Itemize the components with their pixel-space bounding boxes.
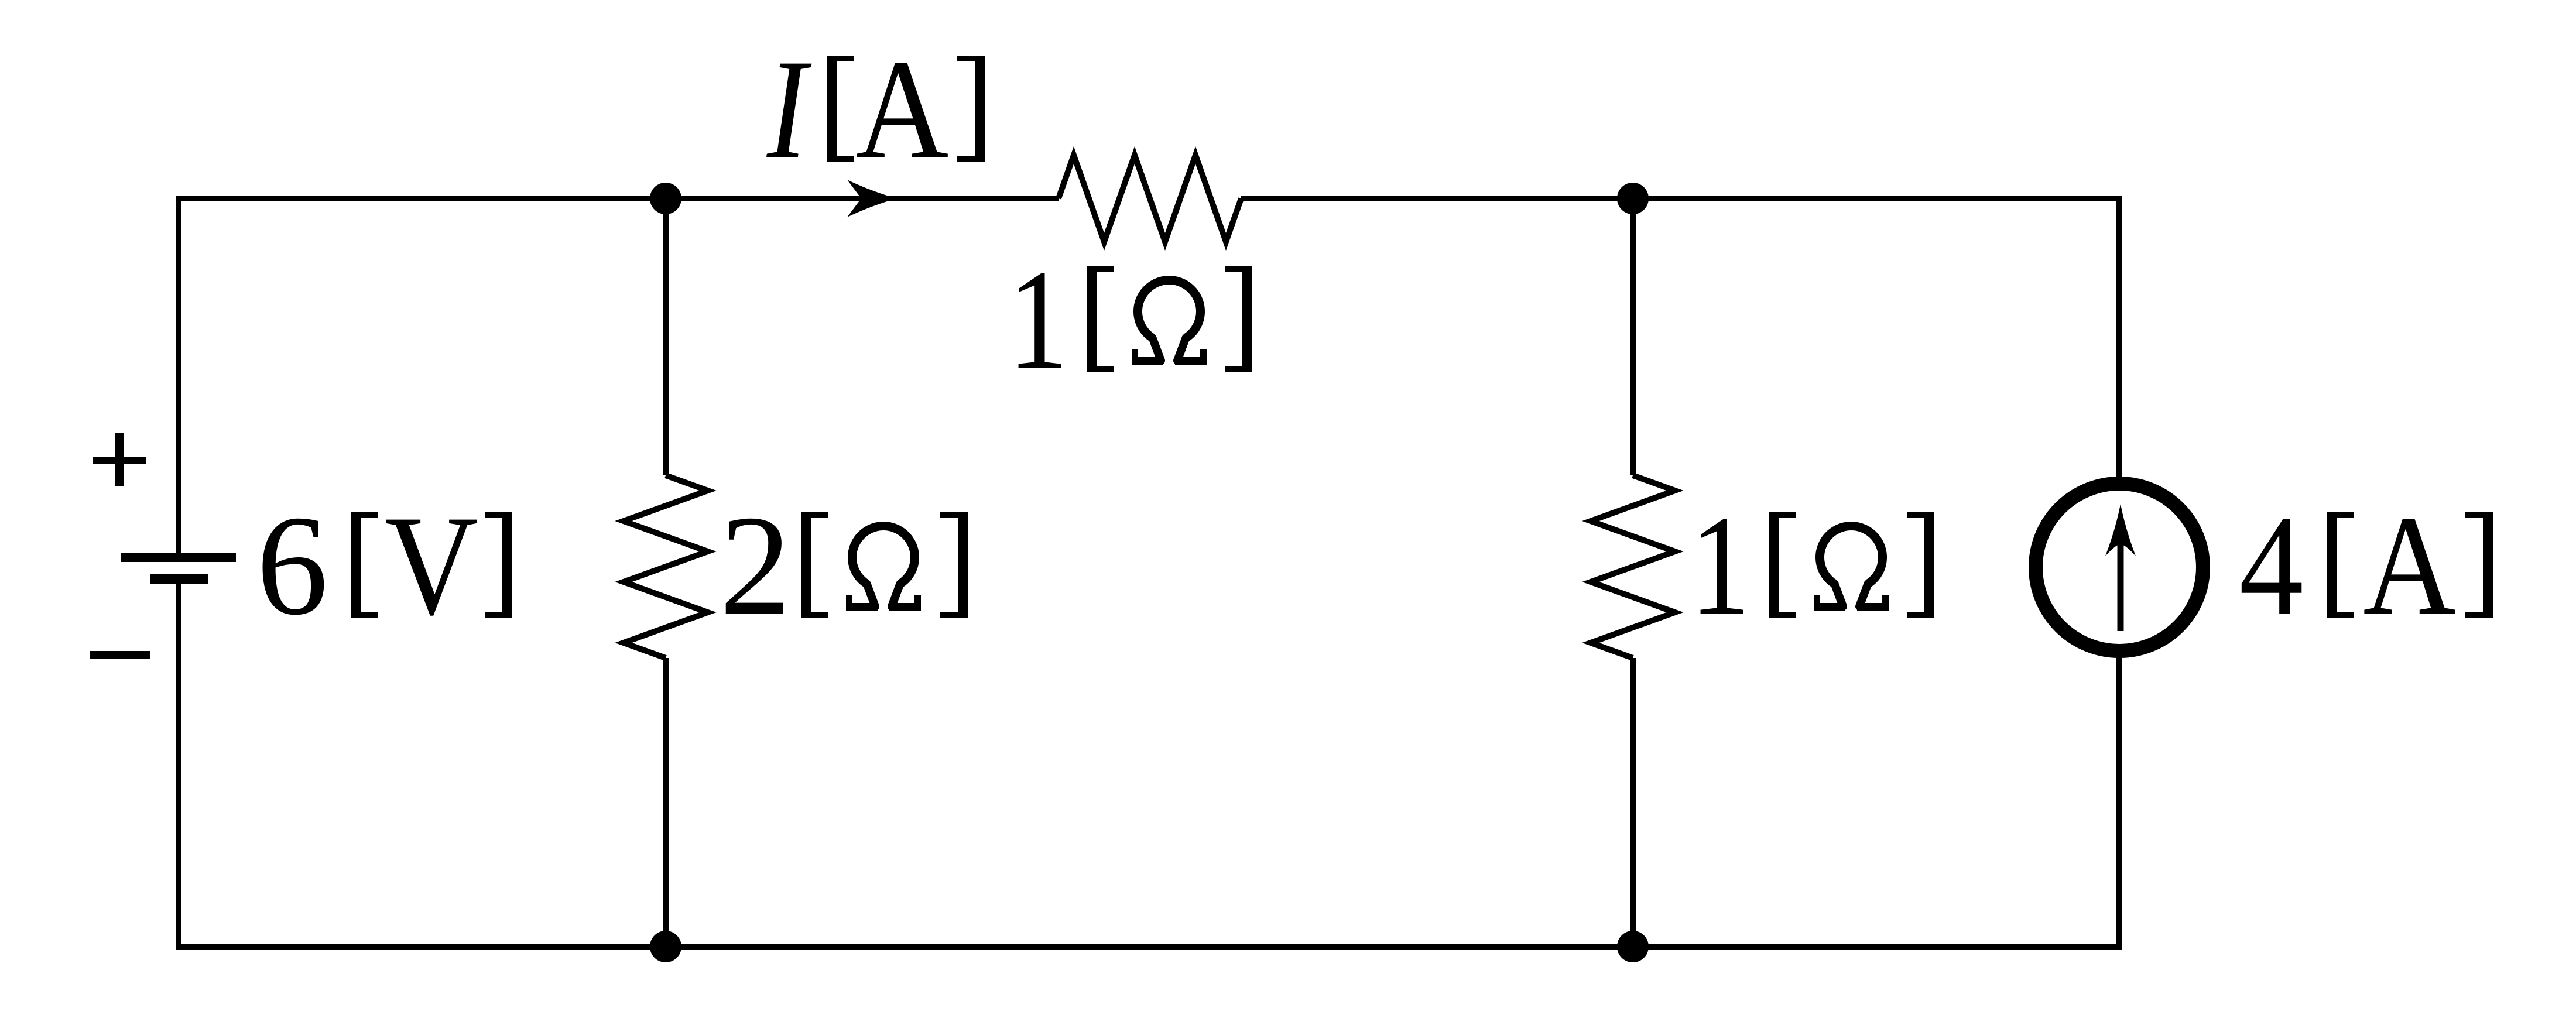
svg-text:6: 6 — [256, 486, 328, 645]
svg-text:A: A — [2363, 486, 2456, 645]
svg-text:4: 4 — [2239, 486, 2304, 645]
svg-text:1: 1 — [1690, 485, 1751, 645]
svg-text:V: V — [385, 486, 478, 645]
svg-text:1: 1 — [1008, 239, 1068, 399]
svg-text:2: 2 — [720, 486, 792, 645]
svg-text:A: A — [855, 30, 948, 189]
svg-text:I: I — [766, 29, 812, 189]
